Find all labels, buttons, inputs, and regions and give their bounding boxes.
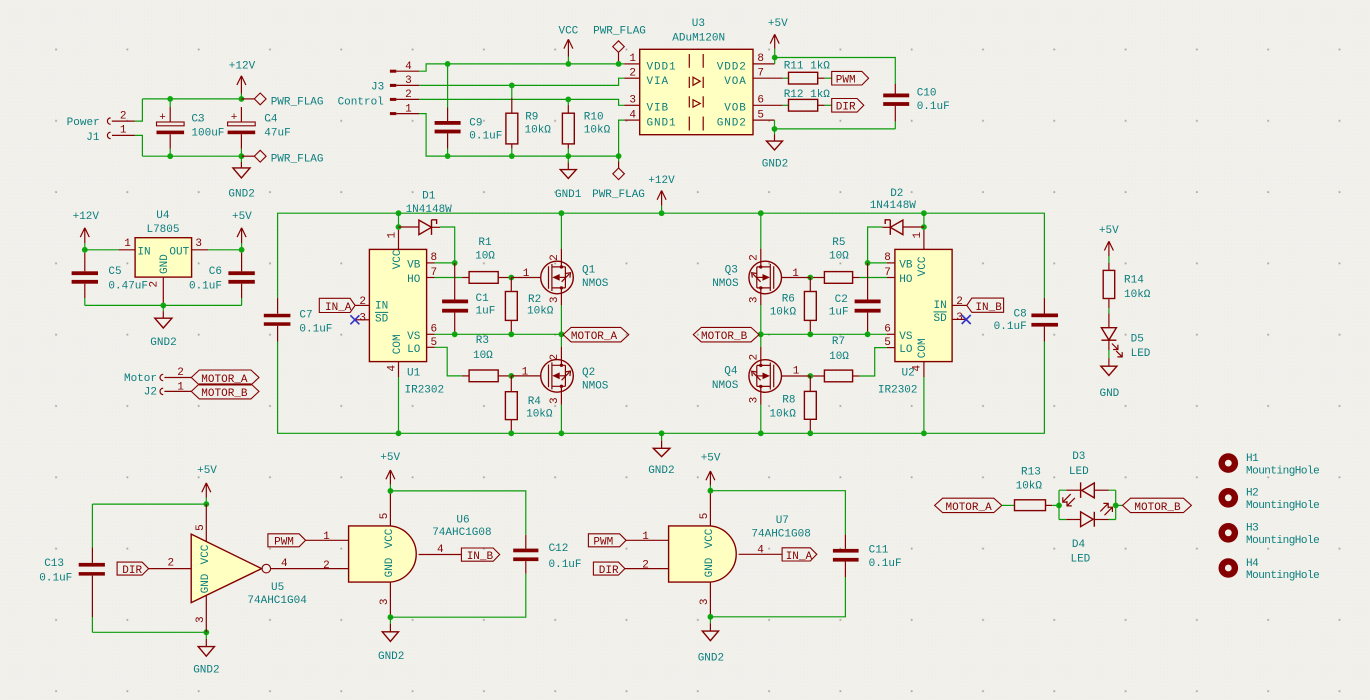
svg-text:VB: VB xyxy=(899,260,913,272)
svg-text:PWR_FLAG: PWR_FLAG xyxy=(593,26,646,38)
svg-text:C2: C2 xyxy=(835,294,848,306)
svg-text:DIR: DIR xyxy=(599,565,619,577)
svg-text:U7: U7 xyxy=(776,515,789,527)
svg-text:PWM: PWM xyxy=(274,537,294,549)
wire bottom rail xyxy=(142,155,241,157)
svg-text:VOA: VOA xyxy=(724,76,747,88)
pin 1 VCC top xyxy=(923,230,925,250)
global label PWM at U6 xyxy=(268,534,306,547)
isolation barrier marks xyxy=(689,54,703,131)
svg-text:5: 5 xyxy=(379,513,391,520)
PWR_FLAG bottom xyxy=(241,155,254,157)
junction GND1 col xyxy=(616,153,622,159)
svg-text:VCC: VCC xyxy=(384,528,396,548)
svg-text:GND2: GND2 xyxy=(648,465,674,477)
svg-text:R5: R5 xyxy=(832,237,845,249)
IC U1 IR2302 body xyxy=(369,249,426,361)
svg-text:R9: R9 xyxy=(525,111,538,123)
svg-text:74AHC1G04: 74AHC1G04 xyxy=(247,595,307,607)
svg-text:R4: R4 xyxy=(528,396,542,408)
junction C1 VS xyxy=(452,331,458,337)
junction Q4 source rail xyxy=(758,430,764,436)
svg-text:LED: LED xyxy=(1131,348,1151,360)
svg-text:MOTOR_B: MOTOR_B xyxy=(701,331,748,343)
svg-text:IN: IN xyxy=(137,246,150,258)
svg-text:10Ω: 10Ω xyxy=(829,251,849,263)
svg-text:+5V: +5V xyxy=(380,452,400,464)
wire GND rail U4 xyxy=(85,304,242,306)
svg-text:0.1uF: 0.1uF xyxy=(189,281,222,293)
wire U6 VCC to C12 xyxy=(390,491,525,535)
junction MOTOR_B xyxy=(758,331,764,337)
svg-text:R6: R6 xyxy=(782,294,795,306)
pin 4 U6 out xyxy=(419,554,462,556)
global label DIR at U7 xyxy=(593,562,625,575)
pin 5 U7 VCC xyxy=(709,491,711,526)
svg-text:LO: LO xyxy=(899,344,913,356)
pin 5 U6 VCC xyxy=(389,491,391,526)
svg-text:GND2: GND2 xyxy=(150,337,176,349)
svg-text:PWM: PWM xyxy=(836,75,856,87)
svg-text:10kΩ: 10kΩ xyxy=(770,307,797,319)
pin 3 SD nc xyxy=(952,318,966,320)
svg-text:6: 6 xyxy=(431,324,438,336)
junction U5 VCC xyxy=(203,501,209,507)
pin 1 J3 xyxy=(390,112,396,115)
junction GND U4 xyxy=(160,303,166,309)
svg-text:10kΩ: 10kΩ xyxy=(769,409,796,421)
junction +12V node xyxy=(239,96,245,102)
capacitor C2 1uF xyxy=(867,263,869,300)
wire U7 VCC to C11 xyxy=(710,491,845,535)
svg-text:3: 3 xyxy=(699,598,711,605)
global label IN_B xyxy=(967,298,1004,312)
svg-text:VB: VB xyxy=(407,260,421,272)
svg-text:10kΩ: 10kΩ xyxy=(1124,289,1151,301)
svg-text:3: 3 xyxy=(748,296,760,303)
svg-text:C5: C5 xyxy=(108,266,121,278)
junction R9 top xyxy=(509,83,515,89)
svg-text:C1: C1 xyxy=(476,293,490,305)
pin 4 J3 xyxy=(390,70,396,73)
svg-text:3: 3 xyxy=(405,75,412,87)
svg-text:R14: R14 xyxy=(1124,275,1144,287)
PWR_FLAG lower xyxy=(618,156,620,161)
junction GND node xyxy=(239,153,245,159)
junction R13 LEDs xyxy=(1056,503,1062,509)
pin 2 U7 xyxy=(625,568,669,570)
junction Q3 drain rail xyxy=(758,210,764,216)
wire J1 pin1 to bottom rail xyxy=(135,135,143,156)
svg-text:LED: LED xyxy=(1069,466,1089,478)
global label IN_A xyxy=(319,298,355,312)
wire GND bottom rail xyxy=(278,342,1045,434)
wire C13 bottom to U5 GND xyxy=(92,631,206,633)
pin 3 U6 GND xyxy=(389,582,391,617)
wire VOB to R12 xyxy=(783,104,789,106)
capacitor C4 47uF xyxy=(240,107,242,122)
svg-text:4: 4 xyxy=(405,61,412,73)
svg-text:GND: GND xyxy=(1099,388,1119,400)
svg-text:+5V: +5V xyxy=(701,452,721,464)
svg-text:MOTOR_A: MOTOR_A xyxy=(946,502,993,514)
svg-text:VCC: VCC xyxy=(392,249,404,269)
junction R9 bottom xyxy=(509,153,515,159)
junction R2 VS xyxy=(508,331,514,337)
junction U5 GND xyxy=(203,629,209,635)
svg-text:MOTOR_B: MOTOR_B xyxy=(1134,502,1181,514)
svg-text:5: 5 xyxy=(699,513,711,520)
svg-text:MountingHole: MountingHole xyxy=(1246,465,1319,477)
svg-text:D1: D1 xyxy=(422,191,436,203)
wire top rail xyxy=(142,98,241,100)
svg-text:10Ω: 10Ω xyxy=(829,351,849,363)
junction VB C2 xyxy=(865,260,871,266)
svg-text:DIR: DIR xyxy=(836,102,856,114)
AND gate U7 74AHC1G08 xyxy=(669,526,737,582)
svg-text:MountingHole: MountingHole xyxy=(1246,535,1319,547)
mounting hole H2 xyxy=(1219,488,1239,508)
pin 4 U7 out xyxy=(739,553,783,555)
svg-text:NMOS: NMOS xyxy=(582,380,609,392)
mounting hole H4 xyxy=(1219,558,1239,578)
wire VDD2 to C10 xyxy=(775,58,896,81)
svg-text:VCC: VCC xyxy=(558,26,578,38)
junction R1 gate xyxy=(508,275,514,281)
junction Q1 drain rail xyxy=(559,210,565,216)
capacitor C10 0.1uF xyxy=(894,80,896,84)
svg-text:IN: IN xyxy=(933,300,946,312)
svg-text:3: 3 xyxy=(956,312,963,324)
svg-text:1uF: 1uF xyxy=(476,306,496,318)
capacitor C5 0.47uF xyxy=(84,253,86,272)
svg-text:4: 4 xyxy=(437,544,444,556)
junction Q2 source rail xyxy=(559,430,565,436)
junction R4 rail xyxy=(508,430,514,436)
wire R11 to PWM xyxy=(825,77,832,79)
ground GND2 under U4 xyxy=(162,305,164,311)
svg-text:5: 5 xyxy=(195,524,207,531)
svg-text:R13: R13 xyxy=(1021,466,1041,478)
pin 1 VDD1 xyxy=(624,63,640,65)
svg-text:HO: HO xyxy=(899,274,913,286)
pin 1 Q3 gate xyxy=(782,277,811,279)
svg-text:D4: D4 xyxy=(1072,539,1086,551)
no-connect X xyxy=(962,315,971,324)
svg-text:10kΩ: 10kΩ xyxy=(1016,481,1043,493)
svg-text:Control: Control xyxy=(338,96,384,108)
svg-text:+5V: +5V xyxy=(1099,225,1119,237)
junction R8 rail xyxy=(807,430,813,436)
svg-text:0.1uF: 0.1uF xyxy=(994,321,1027,333)
svg-text:LO: LO xyxy=(407,344,421,356)
junction PWR_FLAG xyxy=(616,61,622,67)
junction R5 gate xyxy=(807,275,813,281)
svg-text:R8: R8 xyxy=(782,394,795,406)
pin 5 LO xyxy=(887,347,895,349)
svg-text:L7805: L7805 xyxy=(146,224,179,236)
svg-text:R10: R10 xyxy=(584,111,604,123)
svg-text:1: 1 xyxy=(405,103,412,115)
svg-text:IR2302: IR2302 xyxy=(878,384,918,396)
svg-text:7: 7 xyxy=(757,68,764,80)
svg-text:R2: R2 xyxy=(528,294,541,306)
svg-text:VCC: VCC xyxy=(200,544,212,564)
svg-text:6: 6 xyxy=(884,324,891,336)
svg-text:Q1: Q1 xyxy=(582,265,596,277)
buffer A xyxy=(693,77,700,85)
svg-text:MountingHole: MountingHole xyxy=(1246,570,1319,582)
svg-text:3: 3 xyxy=(195,616,207,623)
junction COM2 rail xyxy=(921,430,927,436)
svg-text:U5: U5 xyxy=(271,582,284,594)
global label MOTOR_B at J2 xyxy=(191,384,259,399)
svg-text:2: 2 xyxy=(549,354,561,361)
svg-text:H3: H3 xyxy=(1246,523,1258,535)
svg-text:C13: C13 xyxy=(44,558,64,570)
svg-text:H2: H2 xyxy=(1246,488,1258,500)
svg-text:PWR_FLAG: PWR_FLAG xyxy=(592,189,645,201)
pin 1 Q2 gate xyxy=(511,375,541,377)
svg-text:3: 3 xyxy=(748,397,760,404)
svg-text:7: 7 xyxy=(431,267,438,279)
pin 8 VB xyxy=(887,262,895,264)
svg-text:Motor: Motor xyxy=(124,373,157,385)
junction COM rail xyxy=(396,430,402,436)
wire R12 to DIR xyxy=(825,104,832,106)
svg-text:8: 8 xyxy=(431,252,438,264)
svg-text:GND: GND xyxy=(384,557,396,577)
pin 2 IN xyxy=(952,304,967,306)
svg-text:0.1uF: 0.1uF xyxy=(469,130,502,142)
svg-text:1: 1 xyxy=(792,268,799,280)
resistor R14 10k xyxy=(1108,263,1110,270)
svg-text:10kΩ: 10kΩ xyxy=(525,125,552,137)
wire LO to R7 xyxy=(860,348,887,376)
svg-text:1: 1 xyxy=(642,531,649,543)
pin 5 LO xyxy=(427,346,435,348)
svg-text:J2: J2 xyxy=(144,387,157,399)
wire +12V to U4 IN xyxy=(85,249,119,251)
global label DIR at U5 xyxy=(117,562,149,575)
pin 2 U5 xyxy=(149,568,192,570)
svg-text:4: 4 xyxy=(281,558,288,570)
junction C2 VS xyxy=(865,331,871,337)
capacitor C12 0.1uF xyxy=(525,535,527,549)
svg-text:C8: C8 xyxy=(1013,309,1026,321)
svg-text:3: 3 xyxy=(359,312,366,324)
pin 1 Q4 gate xyxy=(782,375,811,377)
pin 8 VDD2 xyxy=(753,63,775,65)
wire pin4 to VDD1 rail xyxy=(419,64,624,71)
pin 3 Q4 source xyxy=(760,386,762,404)
capacitor C1 1uF xyxy=(454,263,456,300)
svg-text:1: 1 xyxy=(387,232,399,239)
svg-text:GND2: GND2 xyxy=(698,652,724,664)
svg-text:H1: H1 xyxy=(1246,453,1259,465)
svg-text:1: 1 xyxy=(124,238,131,250)
svg-text:1: 1 xyxy=(793,365,800,377)
svg-text:0.1uF: 0.1uF xyxy=(299,323,332,335)
svg-text:C6: C6 xyxy=(209,266,222,278)
pin 2 Q3 drain xyxy=(760,249,762,267)
svg-text:R7: R7 xyxy=(832,336,845,348)
pin 3 Q3 source xyxy=(760,288,762,305)
svg-text:2: 2 xyxy=(149,281,161,288)
pin 2 Q4 drain xyxy=(760,347,762,365)
svg-text:1N4148W: 1N4148W xyxy=(406,204,453,216)
svg-text:NMOS: NMOS xyxy=(582,278,609,290)
svg-text:U1: U1 xyxy=(407,367,421,379)
svg-text:J3: J3 xyxy=(371,82,384,94)
svg-text:0.47uF: 0.47uF xyxy=(108,281,148,293)
capacitor C9 0.1uF xyxy=(447,64,449,108)
svg-text:3: 3 xyxy=(379,598,391,605)
svg-text:D3: D3 xyxy=(1072,451,1085,463)
global label DIR xyxy=(832,99,864,113)
svg-text:74AHC1G08: 74AHC1G08 xyxy=(432,527,491,539)
pin 2 IN xyxy=(355,304,369,306)
junction R3 gate xyxy=(508,373,514,379)
svg-text:U6: U6 xyxy=(456,514,469,526)
svg-text:4: 4 xyxy=(386,365,398,372)
pin 5 U5 VCC xyxy=(205,504,207,541)
ground GND at D5 xyxy=(1108,358,1110,366)
svg-text:2: 2 xyxy=(323,560,330,572)
pin 1 Q1 gate xyxy=(511,277,541,279)
buffer B xyxy=(693,100,700,108)
svg-text:1: 1 xyxy=(323,531,330,543)
svg-text:IN_B: IN_B xyxy=(467,551,494,563)
svg-text:3: 3 xyxy=(549,397,561,404)
pin 2 Q1 drain xyxy=(560,249,562,267)
svg-text:2: 2 xyxy=(359,296,366,308)
svg-text:VS: VS xyxy=(407,331,421,343)
svg-text:C10: C10 xyxy=(917,87,937,99)
svg-text:4: 4 xyxy=(757,545,764,557)
svg-text:3: 3 xyxy=(549,296,561,303)
svg-text:+12V: +12V xyxy=(229,60,256,72)
pin 6 VOB xyxy=(753,104,783,106)
svg-text:+12V: +12V xyxy=(648,175,675,187)
svg-text:GND1: GND1 xyxy=(555,189,582,201)
svg-text:1N4148W: 1N4148W xyxy=(870,200,917,212)
svg-text:Power: Power xyxy=(67,117,100,129)
junction VDD2 xyxy=(772,55,778,61)
svg-text:VIB: VIB xyxy=(647,103,670,115)
capacitor C11 0.1uF xyxy=(844,535,846,549)
pin 3 Q1 source xyxy=(560,288,562,305)
svg-text:2: 2 xyxy=(748,254,760,261)
mounting hole H1 xyxy=(1219,453,1239,473)
svg-text:4: 4 xyxy=(629,109,636,121)
svg-text:PWR_FLAG: PWR_FLAG xyxy=(271,154,324,166)
svg-text:2: 2 xyxy=(748,354,760,361)
svg-text:1: 1 xyxy=(629,53,636,65)
svg-text:LED: LED xyxy=(1070,554,1090,566)
global label IN_A out xyxy=(782,548,817,561)
capacitor C6 0.1uF xyxy=(241,253,243,272)
global label MOTOR_B xyxy=(693,327,759,342)
LED D5 xyxy=(1108,314,1110,328)
svg-text:MOTOR_A: MOTOR_A xyxy=(571,331,618,343)
svg-text:100uF: 100uF xyxy=(191,128,224,140)
svg-text:U3: U3 xyxy=(692,18,705,30)
ground GND2 xyxy=(240,156,242,162)
junction U7 GND xyxy=(708,614,714,620)
pin 8 VB xyxy=(427,262,435,264)
wire VS MOTOR_B row xyxy=(761,333,868,335)
svg-text:ADuM120N: ADuM120N xyxy=(672,33,725,45)
svg-text:R1: R1 xyxy=(478,237,492,249)
pin 1 VCC top xyxy=(398,230,400,250)
pin 6 VS xyxy=(887,333,895,335)
wire VS MOTOR_A row xyxy=(455,333,562,335)
svg-text:VDD2: VDD2 xyxy=(717,62,747,74)
svg-text:+5V: +5V xyxy=(768,18,788,30)
svg-text:+5V: +5V xyxy=(232,211,252,223)
wire VOA to R11 xyxy=(783,77,789,79)
resistor R9 10k xyxy=(511,85,513,98)
pin 3 J3 xyxy=(390,84,396,87)
svg-text:Q3: Q3 xyxy=(725,265,738,277)
ground GND2 under U7 xyxy=(709,617,711,624)
svg-text:Q4: Q4 xyxy=(724,365,738,377)
svg-text:2: 2 xyxy=(549,254,561,261)
svg-text:+12V: +12V xyxy=(73,211,100,223)
pin 3 U5 GND xyxy=(205,595,207,632)
junction GND2 U3 xyxy=(772,126,778,132)
svg-text:MOTOR_B: MOTOR_B xyxy=(201,388,248,400)
svg-text:NMOS: NMOS xyxy=(712,380,739,392)
svg-text:C12: C12 xyxy=(549,543,569,555)
pin 3 Q2 source xyxy=(560,386,562,404)
ground GND1 xyxy=(567,156,569,162)
svg-text:IN_A: IN_A xyxy=(786,551,813,563)
svg-text:GND2: GND2 xyxy=(762,159,788,171)
svg-text:C7: C7 xyxy=(299,310,312,322)
svg-text:2: 2 xyxy=(167,558,174,570)
pin 3 U7 GND xyxy=(709,582,711,617)
svg-text:GND2: GND2 xyxy=(228,188,254,200)
svg-text:H4: H4 xyxy=(1246,558,1259,570)
svg-text:3: 3 xyxy=(629,95,636,107)
global label MOTOR_B at R13 xyxy=(1123,498,1192,512)
junction R10 top xyxy=(565,97,571,103)
svg-text:D2: D2 xyxy=(890,188,903,200)
junction C3 bottom xyxy=(167,153,173,159)
junction U7 VCC xyxy=(708,488,714,494)
wire +12V top rail xyxy=(278,213,1045,298)
capacitor C3 100uF xyxy=(169,99,171,107)
svg-text:2: 2 xyxy=(629,68,636,80)
wire U7 GND to C11 xyxy=(710,577,845,617)
svg-text:2: 2 xyxy=(405,89,412,101)
svg-text:OUT: OUT xyxy=(169,246,189,258)
junction C3 top xyxy=(167,96,173,102)
svg-text:C3: C3 xyxy=(191,113,204,125)
svg-text:VCC: VCC xyxy=(704,528,716,548)
pin 2 GND xyxy=(162,277,164,305)
pin 3 SD nc xyxy=(355,319,370,321)
wire OUT to +5V xyxy=(208,249,241,251)
junction VCC xyxy=(566,61,572,67)
junction LEDs MOTOR_B xyxy=(1113,503,1119,509)
junction U6 VCC xyxy=(388,488,394,494)
svg-text:IR2302: IR2302 xyxy=(405,384,445,396)
svg-text:47uF: 47uF xyxy=(264,128,290,140)
capacitor C8 0.1uF xyxy=(1043,298,1045,314)
